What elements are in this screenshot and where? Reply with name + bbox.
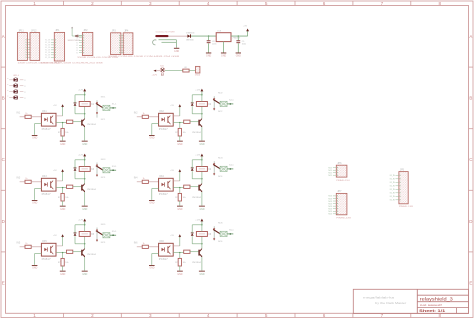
wire R18 to transistor T6 (190, 251, 198, 253)
wire stubs LED2 (9, 85, 13, 87)
svg-text:GND: GND (236, 55, 241, 57)
frame column tick 4 top (236, 1, 238, 6)
resistor R9 (pull-down) (62, 188, 64, 194)
capacitor C9 (237, 36, 239, 40)
svg-text:1k: 1k (25, 113, 27, 115)
svg-text:8: 8 (439, 1, 442, 6)
svg-text:8: 8 (439, 313, 442, 318)
wire OK5 collector to +5V (56, 245, 63, 247)
transistor T6 (198, 250, 199, 256)
svg-text:IN3: IN3 (17, 177, 21, 180)
wire freewheel diode D6 branch (192, 243, 202, 245)
svg-text:B: B (469, 96, 472, 101)
svg-text:GND: GND (177, 209, 182, 211)
svg-text:+12V: +12V (78, 155, 84, 157)
svg-text:+5V: +5V (170, 170, 174, 172)
wire OK1 emitter node (56, 122, 67, 124)
frame row tick 2 left (1, 128, 6, 130)
svg-text:GND: GND (82, 144, 87, 146)
resistor R1 (input) (25, 115, 31, 118)
wire R17 to transistor T5 (73, 251, 81, 253)
capacitor C8 (208, 36, 210, 40)
svg-text:IN6: IN6 (134, 242, 138, 245)
ground symbol below T6 (199, 270, 205, 273)
wire +12V to relay K1 (84, 95, 86, 102)
ground symbol below OK6 (149, 264, 155, 267)
wire freewheel diode D2 branch (192, 113, 202, 115)
resistor R4 (input) (142, 180, 148, 183)
svg-text:R7: R7 (175, 262, 177, 264)
svg-text:JP1: JP1 (55, 29, 60, 32)
svg-text:A: A (469, 34, 472, 39)
svg-text:NO2: NO2 (218, 93, 223, 95)
svg-text:PC817: PC817 (159, 194, 169, 196)
svg-text:X2-1: X2-1 (229, 100, 234, 102)
svg-text:3: 3 (149, 1, 152, 6)
wire emitter T4 to ground (201, 192, 203, 206)
wire OK3 collector to +5V (56, 180, 63, 182)
+12V supply arrow cell 5 (84, 221, 86, 225)
wire collector to relay K3 (84, 171, 86, 183)
relay K2 contact (213, 96, 215, 110)
power jack X9 barrel arc (153, 40, 157, 45)
+12V supply arrow cell 2 (201, 91, 203, 95)
wire R12 to ground (179, 266, 181, 271)
wire terminal X6 out (227, 233, 233, 235)
svg-text:NC6: NC6 (218, 241, 223, 243)
ground symbol below T3 (82, 205, 88, 208)
svg-text:GND: GND (174, 51, 179, 53)
svg-text:JP7: JP7 (337, 190, 342, 193)
ground symbol below R12 (177, 270, 183, 273)
svg-text:A: A (2, 34, 5, 39)
wire collector to relay K5 (84, 236, 86, 248)
resistor R5 (input) (25, 245, 31, 248)
ground symbol below C9 (236, 52, 241, 55)
optocoupler OK1 (41, 113, 56, 126)
svg-text:LED1..4: LED1..4 (13, 75, 20, 77)
resistor R11 (pull-down) (62, 253, 64, 259)
svg-text:OK6: OK6 (159, 241, 164, 243)
wire input net IN3 (20, 181, 25, 183)
wire OK3 emitter node (56, 187, 67, 189)
frame row tick 4 left (1, 251, 6, 253)
transistor T1 (81, 120, 82, 126)
wire freewheel diode D1 branch (75, 113, 85, 115)
svg-text:GND: GND (32, 268, 37, 270)
ground symbol below T1 (82, 140, 88, 143)
wire +12V to relay K5 (84, 225, 86, 232)
resistor R15 (base) (67, 185, 73, 188)
svg-text:g: g (24, 91, 25, 93)
wire R11 to ground (62, 266, 64, 271)
svg-text:2N3904: 2N3904 (87, 254, 97, 256)
svg-text:IN4: IN4 (134, 177, 138, 180)
svg-text:g: g (24, 80, 25, 82)
svg-text:PINHD-1X8: PINHD-1X8 (399, 206, 414, 208)
diode D10 (76, 35, 78, 37)
wire R3 to optocoupler OK3 (31, 181, 41, 183)
wire R16 to transistor T4 (190, 186, 198, 188)
screw terminal X6 (220, 231, 227, 236)
svg-text:10k: 10k (65, 132, 68, 134)
wire +12V to relay K4 (201, 160, 203, 167)
wire +12V to relay K6 (201, 225, 203, 232)
screw terminal X4 (220, 166, 227, 171)
off-page arrow +12V (153, 70, 156, 72)
wire +12V to relay K2 (201, 95, 203, 102)
pin header JP6 (336, 165, 347, 177)
svg-text:+5V: +5V (170, 235, 174, 237)
svg-text:JP5: JP5 (400, 168, 405, 171)
svg-text:X3-1: X3-1 (112, 166, 117, 168)
svg-text:IN1: IN1 (17, 112, 21, 115)
wire freewheel diode D5 branch (75, 243, 85, 245)
svg-text:K1_IN: K1_IN (390, 186, 396, 188)
wire OK5 emitter node (56, 252, 67, 254)
wire input net IN6 (137, 246, 142, 248)
resistor R17 (base) (67, 250, 73, 253)
svg-text:NO5: NO5 (101, 224, 106, 226)
+12V supply arrow cell 6 (201, 221, 203, 225)
ground symbol below IC9 (221, 52, 226, 55)
wire OK4 collector to +5V (173, 180, 180, 182)
ground symbol below R7 (60, 140, 66, 143)
ground symbol below C8 (206, 52, 211, 55)
wire collector to relay K6 (201, 236, 203, 248)
wire OK1 collector to +5V (56, 115, 63, 117)
pin header JP4 (123, 33, 133, 55)
pin header JP12 (30, 33, 40, 61)
svg-text:o: o (7, 84, 8, 86)
diode D5 (freewheel) (74, 233, 77, 236)
relay K1 contact (96, 100, 98, 117)
svg-text:PC817: PC817 (42, 259, 52, 261)
svg-text:E: E (469, 280, 472, 285)
svg-text:10k: 10k (183, 197, 186, 199)
LED LED3 (14, 90, 18, 94)
svg-text:7: 7 (381, 313, 384, 318)
frame row tick 1 left (1, 66, 6, 68)
frame column tick 1 bottom (62, 313, 64, 317)
svg-text:R7: R7 (58, 262, 60, 264)
diode D1 (freewheel) (74, 103, 77, 106)
wire terminal X4 out (227, 168, 233, 170)
transistor T2 (198, 120, 199, 126)
svg-text:GND: GND (177, 274, 182, 276)
resistor R2 (input) (142, 115, 148, 118)
svg-text:GND: GND (149, 268, 154, 270)
svg-text:1k: 1k (143, 178, 145, 180)
relay K3 coil (79, 167, 90, 172)
frame row tick 4 right (469, 251, 474, 253)
ground symbol below OK2 (149, 134, 155, 137)
svg-text:JP3: JP3 (112, 30, 117, 33)
svg-text:7: 7 (381, 1, 384, 6)
LED LED4 (14, 95, 18, 99)
wire OK2 to ground (152, 123, 159, 125)
+5V supply arrow cell 3 (62, 172, 64, 174)
svg-text:GND: GND (221, 55, 226, 57)
wire +12V to relay K3 (84, 160, 86, 167)
svg-text:g: g (24, 85, 25, 87)
transistor T5 (81, 250, 82, 256)
frame column tick 3 top (178, 1, 180, 6)
svg-text:K1_IN: K1_IN (390, 196, 396, 198)
voltage regulator IC9 (216, 33, 231, 42)
wire R5 to optocoupler OK5 (31, 246, 41, 248)
+12V supply arrow cell 3 (84, 156, 86, 160)
svg-text:o: o (7, 78, 8, 80)
svg-text:PINHD-1X4: PINHD-1X4 (336, 180, 350, 182)
wire emitter T6 to ground (201, 257, 203, 271)
relay K4 contact (213, 161, 215, 175)
svg-text:100n: 100n (242, 44, 246, 46)
svg-text:NC4: NC4 (218, 176, 223, 178)
svg-text:R7: R7 (58, 132, 60, 134)
svg-text:X5-1: X5-1 (112, 231, 117, 233)
screw terminal X3 (103, 168, 110, 173)
wire OK6 collector to +5V (173, 245, 180, 247)
wire R7 to ground (62, 136, 64, 141)
title block outline (353, 289, 468, 313)
svg-text:Sheet: 1/1: Sheet: 1/1 (419, 309, 445, 313)
resistor R14 (base) (184, 120, 190, 123)
frame column tick 7 top (410, 1, 412, 6)
+12V supply arrow cell 1 (84, 91, 86, 95)
svg-text:PINHD-1X8: PINHD-1X8 (336, 218, 352, 220)
wire input net IN4 (137, 181, 142, 183)
resistor R13 (base) (67, 120, 73, 123)
diode D4 (freewheel) (191, 168, 194, 171)
relay K2 coil (196, 102, 207, 107)
svg-text:2N3904: 2N3904 (192, 197, 202, 199)
resistor R10 (pull-down) (179, 188, 181, 194)
pin header JP5 (399, 172, 408, 204)
optocoupler OK5 (41, 243, 56, 256)
svg-text:GND: GND (60, 274, 65, 276)
wire stubs LED4 (9, 97, 13, 99)
screw terminal X5 (103, 233, 110, 238)
+5V supply arrow cell 5 (62, 237, 64, 239)
wire OK6 to ground (152, 253, 159, 255)
svg-text:X4-1: X4-1 (229, 165, 234, 167)
resistor R16 (base) (184, 185, 190, 188)
svg-text:GND: GND (149, 203, 154, 205)
+5V supply arrow cell 6 (179, 237, 181, 239)
wire OK4 emitter node (173, 187, 184, 189)
svg-text:relayshield_3: relayshield_3 (420, 296, 454, 301)
wire OK4 to ground (152, 188, 159, 190)
svg-text:DCJ0202-LOW_POWER: DCJ0202-LOW_POWER (156, 31, 175, 33)
junction node at C8 (208, 35, 209, 36)
svg-text:MBRS340: MBRS340 (186, 40, 194, 42)
svg-text:R7: R7 (175, 132, 177, 134)
frame row tick 2 right (469, 128, 474, 130)
svg-text:NO5: NO5 (328, 214, 332, 216)
svg-text:4: 4 (207, 313, 210, 318)
svg-text:MBR0520LT SOD-123: MBR0520LT SOD-123 (68, 40, 81, 42)
svg-text:K1_IN: K1_IN (390, 189, 396, 191)
ground symbol below R11 (60, 270, 66, 273)
pin header JP6 pin stubs (333, 167, 336, 169)
svg-text:2: 2 (91, 1, 94, 6)
svg-text:10k: 10k (65, 197, 68, 199)
svg-text:o: o (7, 96, 8, 98)
resistor R8 (pull-down) (179, 123, 181, 129)
svg-text:JP11: JP11 (18, 29, 24, 32)
svg-text:GND: GND (177, 144, 182, 146)
svg-text:1: 1 (33, 1, 36, 6)
svg-text:+5V: +5V (53, 170, 57, 172)
power jack X9 pin bar (155, 35, 168, 37)
wire terminal X1 out (110, 107, 116, 109)
frame column tick 2 bottom (120, 313, 122, 317)
svg-text:PC817: PC817 (42, 129, 52, 131)
pin header JP1 (54, 32, 64, 61)
resistor R17 (183, 69, 189, 72)
frame column tick 6 bottom (352, 313, 354, 317)
svg-text:JP2: JP2 (83, 29, 88, 32)
wire R9 to ground (62, 201, 64, 206)
relay K6 coil (196, 232, 207, 237)
frame row tick 3 right (469, 189, 474, 191)
frame column tick 3 bottom (178, 313, 180, 317)
ground symbol below OK5 (32, 264, 38, 267)
pin header JP7 pin stubs (333, 195, 336, 197)
relay K4 coil (196, 167, 207, 172)
svg-text:6: 6 (323, 313, 326, 318)
svg-text:3: 3 (149, 313, 152, 318)
supply stub above diode D10 (71, 27, 73, 29)
resistor R6 (input) (142, 245, 148, 248)
svg-text:1X08 CON-09-1X08 CON-HDR-254: 1X08 CON-09-1X08 CON-HDR-254 GS8 (108, 56, 181, 58)
LED LED1 (14, 78, 18, 82)
diode D6 (freewheel) (191, 233, 194, 236)
+5V supply arrow cell 4 (179, 172, 181, 174)
svg-text:GND: GND (60, 209, 65, 211)
svg-text:K1_IN: K1_IN (390, 193, 396, 195)
wire collector to relay K2 (201, 106, 203, 118)
ground symbol below T4 (199, 205, 205, 208)
ground symbol below T2 (199, 140, 205, 143)
svg-text:+12V: +12V (195, 155, 201, 157)
svg-text:X1-1: X1-1 (112, 104, 117, 106)
wire R15 to transistor T3 (73, 186, 81, 188)
wire input net IN5 (20, 246, 25, 248)
svg-text:R7: R7 (58, 197, 60, 199)
wire R13 to transistor T1 (73, 121, 81, 123)
wire OK2 emitter node (173, 122, 184, 124)
wire OK1 to ground (35, 123, 42, 125)
svg-text:GND: GND (32, 203, 37, 205)
transistor T4 (198, 185, 199, 191)
solder jumper SJ1 (160, 68, 165, 73)
junction node at C9 (238, 35, 239, 36)
svg-text:R7: R7 (175, 197, 177, 199)
ground symbol below R9 (60, 205, 66, 208)
svg-text:1X08 CON-09-1X08 CON-HDR-254: 1X08 CON-09-1X08 CON-HDR-254 GS8 (41, 63, 104, 65)
frame column tick 2 top (120, 1, 122, 6)
svg-text:NC1: NC1 (101, 119, 106, 121)
svg-text:+12V: +12V (195, 90, 201, 92)
svg-text:7805T: 7805T (232, 38, 241, 40)
resistor R7 (pull-down) (62, 123, 64, 129)
svg-text:OK5: OK5 (42, 241, 47, 243)
svg-text:4: 4 (207, 1, 210, 6)
svg-text:K1_IN: K1_IN (390, 175, 396, 177)
ground symbol below R8 (177, 140, 183, 143)
wire R6 to optocoupler OK6 (148, 246, 158, 248)
transistor T3 (81, 185, 82, 191)
wire stubs LED3 (9, 91, 13, 93)
wire jack to diode D9 (169, 35, 188, 37)
svg-text:GND: GND (32, 138, 37, 140)
frame column tick 4 bottom (236, 313, 238, 317)
wire stubs LED1 (9, 79, 13, 81)
frame row tick 1 right (469, 66, 474, 68)
wire R17 to JP10 (189, 70, 195, 72)
relay K1 coil (79, 102, 90, 107)
svg-text:C: C (469, 157, 472, 162)
wire terminal X5 out (110, 234, 116, 236)
wire terminal X2 out (227, 103, 233, 105)
svg-text:by the Dark Master: by the Dark Master (375, 302, 406, 305)
pin header JP3 pin stubs (121, 35, 124, 37)
svg-text:NC3: NC3 (101, 177, 106, 179)
ground symbol below jack (174, 47, 179, 50)
svg-text:5: 5 (265, 1, 268, 6)
pin header JP2 pin stubs (79, 34, 82, 36)
relay K6 contact (213, 226, 215, 240)
svg-text:C: C (2, 157, 5, 162)
svg-text:K1_IN: K1_IN (390, 182, 396, 184)
wire from JP2 pin 1 to diode D10 (71, 28, 73, 36)
relay K5 contact (96, 228, 98, 242)
wire terminal X3 out (110, 169, 116, 171)
+5V supply arrow cell 2 (179, 107, 181, 109)
svg-text:K1_IN: K1_IN (390, 179, 396, 181)
svg-text:OK3: OK3 (42, 176, 47, 178)
svg-text:g: g (24, 97, 25, 99)
diode D9 (187, 35, 190, 38)
svg-text:NO6: NO6 (218, 223, 223, 225)
svg-text:1k: 1k (25, 178, 27, 180)
svg-text:K1_IN: K1_IN (390, 200, 396, 202)
title block row dividers (417, 294, 468, 296)
optocoupler OK2 (159, 113, 174, 126)
svg-text:D: D (2, 219, 5, 224)
svg-text:10k: 10k (183, 262, 186, 264)
svg-text:PC817: PC817 (42, 194, 52, 196)
svg-text:GND: GND (82, 209, 87, 211)
screw terminal X2 (220, 101, 227, 106)
wire OK5 to ground (35, 253, 42, 255)
svg-text:JP4: JP4 (124, 30, 129, 33)
pin header JP5 pin stubs (396, 174, 399, 176)
svg-text:PC817: PC817 (159, 129, 169, 131)
svg-text:2N3904: 2N3904 (87, 124, 97, 126)
wire collector to relay K1 (84, 106, 86, 118)
svg-text:6: 6 (323, 1, 326, 6)
svg-text:X6-1: X6-1 (229, 230, 234, 232)
title block sheet cell divider (455, 308, 457, 314)
svg-text:OK2: OK2 (159, 111, 164, 113)
svg-text:NO1: NO1 (101, 97, 106, 99)
wire SJ1 to R17 (165, 70, 183, 72)
svg-text:IN2: IN2 (134, 112, 138, 115)
resistor R12 (pull-down) (179, 253, 181, 259)
